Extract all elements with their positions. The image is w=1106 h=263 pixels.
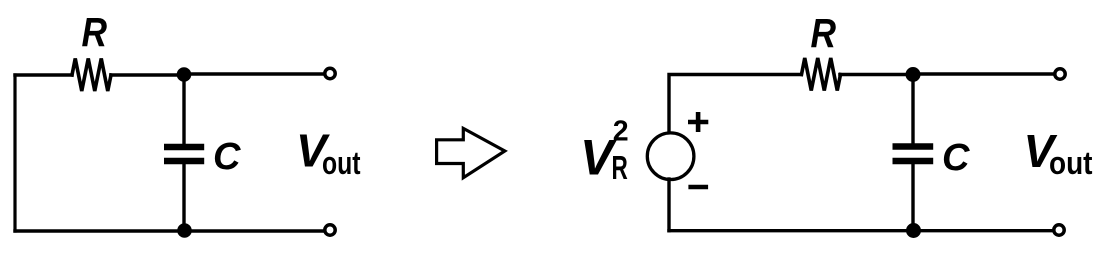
svg-text:C: C — [942, 137, 970, 179]
wire: left circuit bottom rail — [15, 229, 325, 232]
node A junction dot (left circuit top) — [177, 67, 192, 82]
wire: right capacitor top lead — [911, 74, 914, 144]
node D junction dot (right circuit bottom) — [906, 223, 921, 238]
capacitor C (right circuit) — [893, 147, 934, 162]
svg-text:out: out — [322, 145, 361, 181]
resistor R (left circuit) — [72, 59, 111, 92]
noise source V_R^2 (circle symbol) — [647, 133, 694, 180]
wire: node C to upper output terminal — [913, 72, 1055, 75]
svg-text:2: 2 — [613, 116, 629, 148]
label Vout (left circuit) — [296, 125, 361, 181]
wire: left capacitor top lead — [182, 74, 185, 144]
wire: node A to upper output terminal — [184, 72, 325, 75]
wire: right capacitor bottom lead — [911, 164, 914, 231]
terminal: right circuit output - (open circle) — [1054, 225, 1064, 235]
svg-text:R: R — [811, 10, 837, 56]
terminal: left circuit output - (open circle) — [325, 225, 335, 235]
polarity plus mark — [688, 112, 708, 132]
wire: resistor to node C — [840, 73, 913, 76]
arrow: hollow transformation arrow — [437, 128, 505, 177]
label V_R^2 (source value) — [580, 116, 629, 187]
wire: left capacitor bottom lead — [182, 164, 185, 231]
resistor R (right circuit) — [802, 58, 841, 91]
terminal: left circuit output + (open circle) — [325, 68, 335, 78]
node C junction dot (right circuit top) — [906, 67, 921, 82]
wire: top-left segment to resistor — [15, 73, 72, 76]
capacitor C (left circuit) — [164, 147, 204, 161]
label Vout (right circuit) — [1024, 125, 1093, 181]
svg-text:out: out — [1049, 145, 1093, 181]
svg-text:R: R — [82, 9, 108, 55]
wire: source top lead and top-left corner of right circuit — [669, 75, 801, 133]
polarity minus mark — [688, 185, 708, 190]
wire: resistor to node A — [111, 73, 184, 76]
node B junction dot (left circuit bottom) — [177, 223, 192, 238]
svg-text:C: C — [213, 136, 241, 178]
terminal: right circuit output + (open circle) — [1055, 69, 1065, 79]
wire: right circuit bottom rail — [669, 229, 1054, 232]
wire: source bottom lead — [667, 179, 670, 231]
wire: left circuit left rail — [13, 75, 16, 231]
svg-text:R: R — [612, 149, 628, 186]
